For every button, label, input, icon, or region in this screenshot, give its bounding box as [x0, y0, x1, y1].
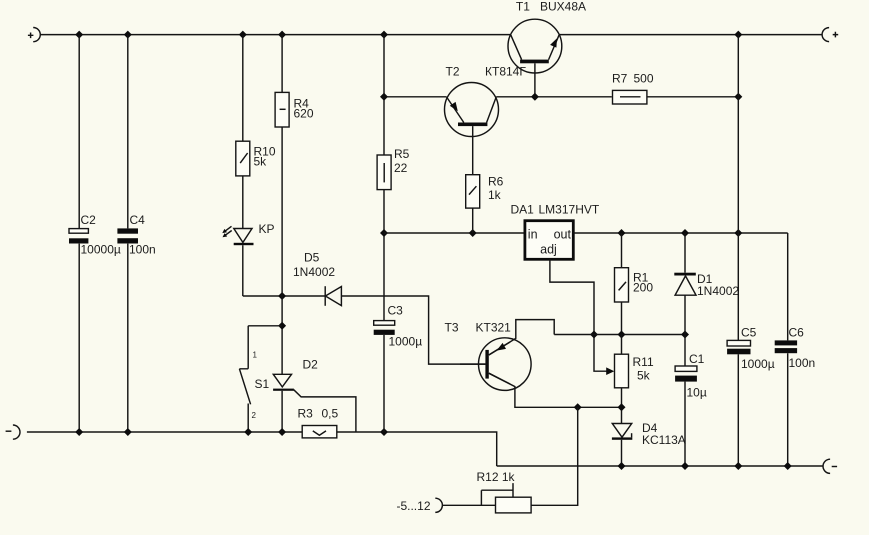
node: top rail junction at output column [734, 31, 742, 39]
capacitor C6 [775, 326, 816, 371]
node: bottom rail at S1 [244, 428, 252, 436]
node: collector line at R11 bottom [618, 403, 626, 411]
svg-text:R11: R11 [633, 355, 654, 369]
resistor R1 [615, 268, 654, 302]
svg-text:200: 200 [633, 281, 653, 295]
capacitor C1 [675, 335, 707, 467]
svg-text:S1: S1 [255, 377, 270, 391]
diode D5 [293, 251, 341, 306]
node: top rail junction at C4 [124, 31, 132, 39]
node: out line at R1 [618, 229, 626, 237]
wire C6 column [787, 233, 789, 466]
svg-text:KC113A: KC113A [642, 433, 686, 447]
resistor R10 [236, 141, 276, 176]
svg-text:R3: R3 [298, 407, 314, 421]
svg-text:C3: C3 [388, 304, 404, 318]
wire R10 to LED [242, 176, 244, 229]
svg-text:10µ: 10µ [687, 386, 707, 400]
svg-text:D2: D2 [303, 358, 319, 372]
wire R7 to output column [647, 96, 738, 98]
wire R4 column top [281, 35, 283, 93]
svg-text:R7: R7 [612, 72, 628, 86]
svg-text:2: 2 [252, 411, 257, 420]
wire DA1 adj pin [550, 259, 608, 371]
LED KP [222, 222, 274, 245]
svg-text:1000µ: 1000µ [389, 335, 423, 349]
node: right rail at C1 [681, 462, 689, 470]
node: T1 base junction [531, 93, 539, 101]
wire LED cathode down [242, 245, 244, 296]
wire output column [737, 35, 739, 466]
svg-text:D5: D5 [304, 251, 320, 265]
zener diode D4 [612, 421, 686, 447]
thyristor D2 [273, 358, 356, 433]
wire R1 top stub [621, 233, 623, 268]
svg-text:1000µ: 1000µ [741, 357, 775, 371]
node: top rail junction at R10 [239, 31, 247, 39]
resistor R6 [466, 175, 504, 209]
node: collector line at R12 branch [574, 403, 582, 411]
svg-text:KP: KP [259, 222, 275, 236]
svg-text:1N4002: 1N4002 [293, 265, 335, 279]
diode D1 [674, 233, 739, 335]
wire DA1 out line [573, 232, 787, 234]
svg-text:C5: C5 [741, 326, 757, 340]
node: line at R11 column [618, 331, 626, 339]
wire D5 line [243, 295, 325, 297]
capacitor C4 [117, 213, 155, 257]
wire bottom negative rail right [497, 465, 823, 467]
transistor T2 KT814G [445, 65, 527, 137]
switch S1 [239, 326, 282, 432]
node: bottom rail at C4 [124, 428, 132, 436]
wire T3 collector path [489, 373, 622, 407]
wire T2 emitter to R6 [472, 126, 474, 175]
svg-text:1k: 1k [488, 188, 502, 202]
node: out line at D1 [681, 229, 689, 237]
wire DA1 in line [384, 232, 525, 234]
wire D5 anode to T3 base [341, 296, 485, 364]
svg-text:10000µ: 10000µ [81, 243, 121, 257]
svg-text:R5: R5 [394, 147, 410, 161]
node: S1 branch junction [278, 322, 286, 330]
wire R6 bottom [472, 208, 474, 233]
capacitor C2 [69, 213, 121, 257]
wire R5 bottom to C3 [383, 190, 385, 321]
node: line at D1 column [681, 331, 689, 339]
node: right rail at C5 [734, 462, 742, 470]
node: adj junction on R1-R11 line [590, 331, 598, 339]
svg-text:DA1: DA1 [511, 203, 535, 217]
svg-text:T1: T1 [516, 0, 530, 14]
transistor T1 BUX48A [508, 0, 586, 73]
node: bottom rail at D2 [278, 428, 286, 436]
node: R7 junction at output column [734, 93, 742, 101]
control input terminal -5...12 [396, 498, 442, 513]
resistor R7 [612, 72, 654, 105]
resistor R3 [298, 407, 339, 438]
svg-text:R12 1k: R12 1k [477, 470, 516, 484]
potentiometer R12 [442, 470, 531, 513]
wire R10 column top [242, 35, 244, 142]
wire C3 bottom [383, 335, 385, 432]
node: T2 base line at R5 column [380, 93, 388, 101]
wiper arrow into R11 [606, 367, 614, 375]
node: bottom rail at C3 [380, 428, 388, 436]
svg-text:1N4002: 1N4002 [697, 284, 739, 298]
wire R4 bottom to D2 [281, 127, 283, 374]
wire D4 cathode down [621, 440, 623, 466]
node: D5 line junction at R4 column [278, 292, 286, 300]
wire bottom negative rail left [27, 432, 497, 466]
node: bottom rail at C2 [75, 428, 83, 436]
svg-text:adj: adj [540, 243, 557, 257]
output - terminal [823, 459, 837, 473]
resistor R4 [275, 92, 314, 127]
potentiometer R11 [615, 354, 654, 388]
wire C2 column [78, 35, 80, 432]
svg-text:T3: T3 [445, 321, 459, 335]
svg-text:КТ814Г: КТ814Г [485, 65, 526, 79]
op-amp regulator DA1 LM317HVT [511, 203, 600, 260]
wire T1 base down [534, 63, 536, 97]
wire R5 column top [383, 35, 385, 155]
wire T3 emitter path [489, 320, 554, 355]
wire R11 stubs [621, 335, 623, 424]
node: R6 bottom junction [469, 229, 477, 237]
svg-text:0,5: 0,5 [322, 407, 339, 421]
node: top rail junction at R5 [380, 31, 388, 39]
svg-text:620: 620 [294, 107, 314, 121]
svg-text:C1: C1 [689, 352, 705, 366]
resistor R5 [377, 147, 410, 190]
svg-text:C2: C2 [81, 213, 97, 227]
transistor T3 KT321 [445, 321, 532, 391]
node: out line at output column [734, 229, 742, 237]
svg-text:5k: 5k [637, 369, 651, 383]
svg-text:LM317HVT: LM317HVT [539, 203, 600, 217]
capacitor C3 [374, 304, 422, 349]
node: right rail at C6 [784, 462, 792, 470]
node: in-line junction at R5 column [380, 229, 388, 237]
svg-text:BUX48A: BUX48A [540, 0, 586, 14]
wire D2 cathode down [281, 391, 283, 432]
svg-text:C4: C4 [130, 213, 146, 227]
svg-text:KT321: KT321 [476, 321, 512, 335]
wire T2 base line [384, 96, 612, 98]
node: top rail junction at R4 [278, 31, 286, 39]
svg-text:-5...12: -5...12 [396, 499, 430, 513]
input - terminal [6, 425, 20, 439]
svg-text:R6: R6 [488, 175, 504, 189]
svg-text:out: out [554, 227, 572, 241]
capacitor C5 [727, 326, 775, 372]
svg-text:T2: T2 [446, 65, 460, 79]
svg-text:500: 500 [634, 72, 654, 86]
input + terminal [28, 28, 40, 42]
node: top rail junction at C2 [75, 31, 83, 39]
wire R1 bottom stub [621, 302, 623, 335]
node: right rail at D4 [618, 462, 626, 470]
wire C4 column [127, 35, 129, 432]
svg-text:1: 1 [253, 351, 258, 360]
wire R12 branch [531, 407, 578, 505]
output + terminal [822, 28, 838, 42]
svg-text:100n: 100n [129, 243, 156, 257]
svg-text:in: in [528, 227, 538, 241]
wire R1-R11-D1 line [554, 334, 685, 336]
svg-text:100n: 100n [789, 356, 816, 370]
svg-text:C6: C6 [789, 326, 805, 340]
svg-text:5k: 5k [254, 155, 268, 169]
svg-text:22: 22 [394, 161, 408, 175]
wire top positive rail [40, 34, 822, 36]
